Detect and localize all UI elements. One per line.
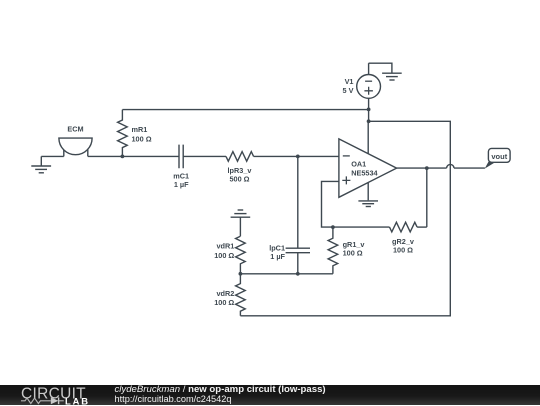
ground: inverted ground above vdR1 <box>231 210 251 236</box>
svg-text:5 V: 5 V <box>343 86 354 95</box>
junction: mR1 bottom node <box>121 155 125 159</box>
wire: ECM right pin to mC1 left plate <box>88 155 179 157</box>
wire: output node down to feedback rail <box>426 168 428 227</box>
wire: V1 top to ground <box>369 63 392 73</box>
capacitor lpC1 <box>286 248 310 253</box>
junction: V1 bottom / top rail <box>367 108 371 112</box>
resistor mR1 <box>118 110 128 157</box>
wire: top rail from mR1 to V1 <box>122 109 368 111</box>
wire: V1 node down to supply node <box>368 109 370 121</box>
wire: op-amp V- pin to ground <box>367 183 369 201</box>
wire: left ground to ECM left pin <box>41 155 64 157</box>
wire: supply node right, down right side, to vdR2 bottom <box>240 121 450 315</box>
svg-text:500 Ω: 500 Ω <box>229 174 249 183</box>
svg-text:V1: V1 <box>345 77 354 86</box>
junction: lpC1 bottom node <box>296 272 300 276</box>
svg-text:gR1_v: gR1_v <box>343 240 366 249</box>
svg-text:mR1: mR1 <box>132 125 148 134</box>
wire: lpC1 bottom to bottom rail <box>297 253 299 274</box>
capacitor mC1 <box>179 145 183 169</box>
ground: V1 ground <box>382 73 402 80</box>
wire hop over vertical wire <box>447 164 454 168</box>
wire: mC1 right plate to lpR3_v <box>183 155 226 157</box>
resistor gR1_v <box>328 227 338 274</box>
ground: op-amp negative supply <box>358 201 378 207</box>
svg-text:LAB: LAB <box>65 395 90 406</box>
op-amp OA1 <box>339 139 397 197</box>
CircuitLab logo <box>0 385 110 406</box>
svg-text:vout: vout <box>491 152 507 161</box>
flag vout <box>485 148 510 168</box>
svg-text:100 Ω: 100 Ω <box>132 135 152 144</box>
voltage source V1 <box>357 63 381 109</box>
footer titles <box>115 385 326 403</box>
junction: vdR1/vdR2 node <box>239 272 243 276</box>
svg-text:1 µF: 1 µF <box>174 180 189 189</box>
svg-text:100 Ω: 100 Ω <box>214 251 234 260</box>
svg-text:1 µF: 1 µF <box>270 252 285 261</box>
wire: bottom rail vdR1 node to gR1_v bottom <box>240 273 333 275</box>
svg-text:100 Ω: 100 Ω <box>393 245 413 254</box>
resistor gR2_v <box>390 222 418 232</box>
wire: hop to vout flag <box>454 167 485 169</box>
resistor vdR1 <box>236 236 246 274</box>
svg-text:100 Ω: 100 Ω <box>343 249 363 258</box>
ground GND1 (left, at ECM) <box>31 156 51 172</box>
microphone ECM <box>59 138 92 156</box>
svg-text:100 Ω: 100 Ω <box>214 298 234 307</box>
svg-text:vdR1: vdR1 <box>216 242 234 251</box>
wire: lpR3_v to op-amp inverting input <box>254 155 339 157</box>
svg-text:NE5534: NE5534 <box>351 169 378 178</box>
resistor vdR2 <box>236 274 246 316</box>
node: lpC1 top junction <box>296 155 300 159</box>
wire: gR2_v left to gR1 node to op-amp non-inverting input <box>322 181 390 227</box>
svg-text:ECM: ECM <box>67 125 83 134</box>
footer bar <box>0 385 540 406</box>
wire: op-amp output to hop <box>397 167 447 169</box>
junction: output node <box>425 166 429 170</box>
wire: feedback corner to gR2_v right <box>417 226 427 228</box>
junction: supply branch node <box>367 119 371 123</box>
svg-text:OA1: OA1 <box>351 160 366 169</box>
svg-text:vdR2: vdR2 <box>216 289 234 298</box>
wire: junction down to lpC1 <box>297 156 299 248</box>
wire: op-amp V+ pin from supply node <box>367 121 369 153</box>
resistor lpR3_v <box>226 152 254 162</box>
junction: gR1 top node <box>331 225 335 229</box>
